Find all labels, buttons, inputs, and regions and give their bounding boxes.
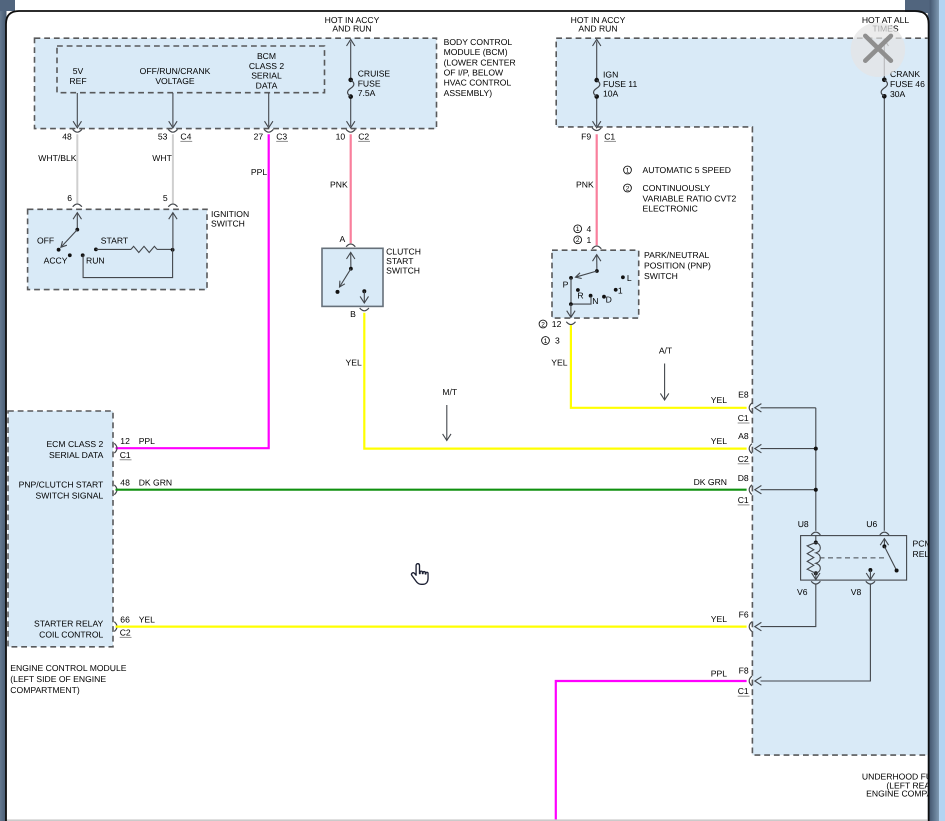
svg-text:YEL: YEL bbox=[711, 614, 727, 624]
svg-text:2: 2 bbox=[576, 237, 580, 244]
svg-text:U6: U6 bbox=[866, 519, 877, 529]
svg-text:VOLTAGE: VOLTAGE bbox=[155, 76, 195, 86]
svg-text:C4: C4 bbox=[180, 131, 191, 141]
svg-text:COIL CONTROL: COIL CONTROL bbox=[39, 629, 103, 639]
svg-text:27: 27 bbox=[254, 131, 264, 141]
svg-text:SERIAL: SERIAL bbox=[251, 71, 282, 81]
svg-text:1: 1 bbox=[544, 338, 548, 345]
svg-text:BODY CONTROL: BODY CONTROL bbox=[444, 37, 513, 47]
svg-text:C2: C2 bbox=[120, 627, 131, 637]
svg-text:OFF: OFF bbox=[37, 236, 54, 246]
svg-text:V6: V6 bbox=[797, 587, 808, 597]
svg-text:N: N bbox=[592, 296, 598, 306]
svg-text:ACCY: ACCY bbox=[44, 255, 68, 265]
svg-text:PPL: PPL bbox=[711, 668, 727, 678]
svg-text:SWITCH: SWITCH bbox=[644, 271, 678, 281]
svg-text:CLUTCH: CLUTCH bbox=[386, 247, 421, 257]
svg-text:ECM CLASS 2: ECM CLASS 2 bbox=[46, 439, 103, 449]
svg-text:(LEFT SIDE OF ENGINE: (LEFT SIDE OF ENGINE bbox=[10, 674, 106, 684]
svg-text:5V: 5V bbox=[73, 66, 84, 76]
svg-text:PPL: PPL bbox=[251, 167, 267, 177]
svg-text:C1: C1 bbox=[738, 495, 749, 505]
svg-text:WHT/BLK: WHT/BLK bbox=[38, 153, 76, 163]
svg-text:C2: C2 bbox=[738, 454, 749, 464]
svg-text:OFF/RUN/CRANK: OFF/RUN/CRANK bbox=[140, 66, 211, 76]
svg-text:53: 53 bbox=[158, 131, 168, 141]
svg-text:CONTINUOUSLY: CONTINUOUSLY bbox=[643, 183, 711, 193]
svg-text:C1: C1 bbox=[120, 450, 131, 460]
svg-text:PPL: PPL bbox=[139, 436, 155, 446]
svg-text:12: 12 bbox=[552, 319, 562, 329]
svg-text:YEL: YEL bbox=[711, 436, 727, 446]
svg-text:C3: C3 bbox=[276, 131, 287, 141]
svg-text:10: 10 bbox=[336, 131, 346, 141]
svg-text:MODULE (BCM): MODULE (BCM) bbox=[444, 47, 508, 57]
svg-text:F9: F9 bbox=[581, 131, 591, 141]
svg-text:VARIABLE RATIO CVT2: VARIABLE RATIO CVT2 bbox=[643, 193, 737, 203]
svg-text:RUN: RUN bbox=[86, 255, 105, 265]
svg-text:ELECTRONIC: ELECTRONIC bbox=[643, 204, 698, 214]
svg-text:4: 4 bbox=[587, 224, 592, 234]
svg-text:AND RUN: AND RUN bbox=[578, 24, 617, 34]
svg-text:48: 48 bbox=[120, 477, 130, 487]
svg-text:7.5A: 7.5A bbox=[358, 88, 376, 98]
svg-text:D: D bbox=[606, 295, 612, 305]
svg-text:M/T: M/T bbox=[442, 387, 458, 397]
svg-text:SWITCH SIGNAL: SWITCH SIGNAL bbox=[35, 490, 103, 500]
svg-text:1: 1 bbox=[618, 286, 623, 296]
svg-text:L: L bbox=[627, 273, 632, 283]
svg-text:C1: C1 bbox=[738, 413, 749, 423]
svg-text:D8: D8 bbox=[738, 473, 749, 483]
svg-text:DK GRN: DK GRN bbox=[694, 477, 727, 487]
svg-text:6: 6 bbox=[67, 193, 72, 203]
svg-text:A/T: A/T bbox=[659, 346, 673, 356]
svg-text:STARTER RELAY: STARTER RELAY bbox=[34, 618, 104, 628]
svg-text:PARK/NEUTRAL: PARK/NEUTRAL bbox=[644, 250, 709, 260]
svg-text:5: 5 bbox=[163, 193, 168, 203]
svg-text:DATA: DATA bbox=[256, 80, 278, 90]
svg-text:30A: 30A bbox=[890, 89, 906, 99]
svg-text:P: P bbox=[563, 280, 569, 290]
svg-text:12: 12 bbox=[120, 436, 130, 446]
svg-text:ENGINE CONTROL MODULE: ENGINE CONTROL MODULE bbox=[10, 663, 126, 673]
svg-text:1: 1 bbox=[587, 235, 592, 245]
svg-text:(LOWER CENTER: (LOWER CENTER bbox=[444, 57, 516, 67]
svg-text:C1: C1 bbox=[738, 686, 749, 696]
svg-text:F8: F8 bbox=[739, 665, 749, 675]
svg-text:F6: F6 bbox=[739, 609, 749, 619]
svg-text:V8: V8 bbox=[851, 587, 862, 597]
svg-text:A: A bbox=[340, 234, 346, 244]
svg-text:WHT: WHT bbox=[152, 153, 172, 163]
svg-text:FUSE: FUSE bbox=[358, 78, 381, 88]
svg-text:C2: C2 bbox=[358, 131, 369, 141]
svg-text:FUSE 46: FUSE 46 bbox=[890, 79, 925, 89]
svg-text:10A: 10A bbox=[603, 88, 619, 98]
svg-text:SERIAL DATA: SERIAL DATA bbox=[49, 450, 104, 460]
svg-text:YEL: YEL bbox=[346, 357, 362, 367]
svg-text:OF I/P, BELOW: OF I/P, BELOW bbox=[444, 68, 504, 78]
svg-text:SWITCH: SWITCH bbox=[386, 265, 420, 275]
svg-text:1: 1 bbox=[576, 226, 580, 233]
svg-text:AND RUN: AND RUN bbox=[332, 24, 371, 34]
svg-text:1: 1 bbox=[626, 167, 630, 174]
svg-text:2: 2 bbox=[541, 321, 545, 328]
svg-text:A8: A8 bbox=[738, 431, 749, 441]
svg-text:YEL: YEL bbox=[711, 395, 727, 405]
svg-text:U8: U8 bbox=[798, 519, 809, 529]
svg-text:IGNITION: IGNITION bbox=[211, 209, 249, 219]
svg-text:48: 48 bbox=[62, 131, 72, 141]
svg-text:YEL: YEL bbox=[551, 357, 567, 367]
svg-text:AUTOMATIC 5 SPEED: AUTOMATIC 5 SPEED bbox=[643, 165, 732, 175]
svg-text:COMPARTMENT): COMPARTMENT) bbox=[10, 685, 80, 695]
svg-text:POSITION (PNP): POSITION (PNP) bbox=[644, 261, 711, 271]
svg-text:BCM: BCM bbox=[257, 51, 276, 61]
svg-text:ASSEMBLY): ASSEMBLY) bbox=[444, 88, 493, 98]
svg-text:HVAC CONTROL: HVAC CONTROL bbox=[444, 78, 512, 88]
svg-text:C1: C1 bbox=[604, 131, 615, 141]
svg-text:PNK: PNK bbox=[330, 180, 348, 190]
svg-text:PNK: PNK bbox=[576, 180, 594, 190]
svg-text:B: B bbox=[350, 309, 356, 319]
svg-text:CRUISE: CRUISE bbox=[358, 69, 391, 79]
svg-text:3: 3 bbox=[555, 336, 560, 346]
svg-text:REF: REF bbox=[69, 76, 86, 86]
svg-text:START: START bbox=[101, 236, 129, 246]
svg-text:PNP/CLUTCH START: PNP/CLUTCH START bbox=[19, 479, 104, 489]
svg-text:YEL: YEL bbox=[139, 615, 155, 625]
svg-text:66: 66 bbox=[120, 615, 130, 625]
svg-text:2: 2 bbox=[626, 185, 630, 192]
svg-text:R: R bbox=[577, 291, 583, 301]
svg-text:DK GRN: DK GRN bbox=[139, 477, 172, 487]
svg-text:SWITCH: SWITCH bbox=[211, 219, 245, 229]
svg-text:CLASS 2: CLASS 2 bbox=[249, 61, 285, 71]
svg-text:E8: E8 bbox=[738, 390, 749, 400]
